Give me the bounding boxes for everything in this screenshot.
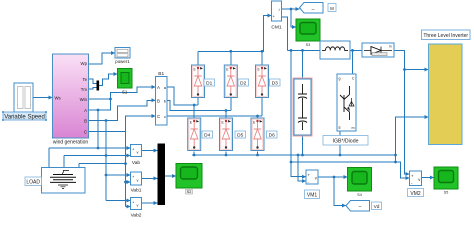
svg-text:v: v — [137, 203, 139, 208]
svg-text:Wp: Wp — [81, 61, 88, 66]
scope S2 — [176, 164, 202, 195]
wire mux output to scope S2 — [165, 175, 176, 177]
svg-text:B: B — [84, 119, 87, 124]
wire B1 b to rectifier row2 — [167, 100, 231, 110]
wire capacitor top — [302, 50, 304, 79]
wire D2 bottom — [230, 98, 232, 111]
wire phase A tap down — [97, 110, 99, 148]
label Three Level Inverter — [422, 30, 471, 40]
svg-text:IGB*/Diode: IGB*/Diode — [333, 139, 359, 145]
svg-text:S4: S4 — [357, 193, 361, 197]
voltage measurement Vab2 — [131, 198, 142, 219]
svg-text:C: C — [84, 130, 87, 135]
svg-text:Vab2: Vab2 — [131, 213, 142, 219]
label Vd — [372, 202, 382, 210]
svg-text:m: m — [352, 126, 355, 130]
wire phase A rail to Vab — [49, 147, 131, 149]
label D3 — [270, 79, 281, 87]
wire mux to scope S1 — [99, 74, 118, 86]
wire phase C rail — [79, 163, 126, 165]
svg-text:m: m — [389, 45, 392, 49]
goto tag minus Vd — [346, 201, 370, 212]
wire capacitor bottom — [302, 135, 304, 155]
wire phase B rail to Vab minus — [64, 155, 131, 157]
voltage measurement Vab1 — [131, 172, 142, 194]
wire D6 bottom — [257, 152, 259, 156]
wire bus to inductor — [287, 49, 320, 51]
wire D5 top — [225, 111, 227, 119]
svg-text:S2: S2 — [187, 190, 191, 194]
mux Te Tm — [97, 81, 100, 91]
three-phase measurement B1 — [156, 71, 168, 125]
svg-text:S1: S1 — [122, 90, 128, 95]
label LOAD — [25, 177, 42, 186]
svg-text:S3: S3 — [306, 43, 310, 47]
label D4 — [202, 131, 213, 139]
wire D3 bottom — [261, 98, 263, 117]
wire DC link sense rail to VM2 — [291, 162, 410, 178]
voltage measurement VM2 — [410, 171, 422, 186]
wire D6 top — [257, 116, 259, 118]
label D1 — [204, 79, 215, 87]
svg-text:VM2: VM2 — [410, 191, 421, 197]
arrowheads — [49, 7, 435, 209]
diode D4 — [188, 118, 201, 151]
svg-text:S5: S5 — [444, 191, 448, 195]
svg-text:B: B — [157, 98, 160, 103]
svg-text:Vd: Vd — [374, 204, 380, 210]
wire load riser B — [63, 156, 65, 168]
svg-text:C: C — [352, 77, 355, 81]
svg-text:v: v — [137, 150, 139, 155]
wire branch into inverter input 1 — [405, 69, 429, 71]
wire D1 bottom — [197, 98, 199, 106]
svg-text:v: v — [137, 178, 139, 183]
svg-text:A: A — [84, 108, 87, 113]
from tag M — [328, 4, 336, 12]
svg-text:A: A — [157, 85, 160, 90]
voltage measurement Vab — [131, 145, 142, 167]
wire phase C staircase to B1 — [89, 116, 156, 132]
svg-text:D2: D2 — [240, 81, 246, 87]
wire inductor to series diode — [350, 49, 362, 51]
svg-text:D3: D3 — [272, 81, 278, 87]
goto tag minus — [300, 3, 324, 14]
wire IGBT emitter to bus — [339, 131, 341, 155]
capacitor block C — [294, 79, 311, 135]
svg-text:c: c — [164, 114, 166, 119]
svg-text:power1: power1 — [115, 59, 130, 64]
svg-text:Three Level Inverter: Three Level Inverter — [423, 33, 468, 39]
wire phase A staircase to B1 — [89, 87, 156, 110]
svg-text:wind generation: wind generation — [53, 140, 89, 146]
wire Wp to power1 — [89, 53, 116, 64]
wire VM1 output to scope S4 — [318, 176, 348, 178]
svg-text:g: g — [339, 77, 341, 81]
svg-text:B1: B1 — [158, 71, 164, 77]
wire Vab output to mux — [142, 150, 158, 152]
current measurement CM1 — [271, 1, 281, 31]
wire Vab1 output to mux — [142, 177, 158, 179]
svg-text:D1: D1 — [206, 81, 212, 87]
wire VM2 output to scope S5 — [422, 177, 435, 179]
wire IGBT collector — [352, 50, 354, 74]
svg-text:Te: Te — [82, 77, 87, 82]
series diode block — [362, 43, 394, 57]
svg-text:Vab1: Vab1 — [131, 188, 142, 194]
svg-text:C: C — [157, 114, 160, 119]
scope S3 — [296, 19, 320, 47]
wire phase C tap down to Vab1 minus and Vab2 minus — [126, 132, 131, 207]
IGBT Diode block — [337, 74, 356, 131]
wire Te to mux — [89, 79, 97, 84]
wire top DC bus — [198, 16, 272, 52]
wire Ws source to generator — [33, 97, 53, 99]
svg-text:D6: D6 — [269, 133, 275, 139]
svg-text:D5: D5 — [237, 133, 243, 139]
label IGB Diode — [323, 136, 368, 146]
svg-text:–: – — [312, 6, 315, 12]
wire CM1 return to bus — [282, 17, 288, 50]
scope power1 — [115, 48, 130, 65]
wire B1 a to rectifier row1 — [167, 87, 198, 105]
wire B1 c to rectifier row3 — [167, 115, 262, 117]
wire VM1 plus feed from top bus — [291, 50, 306, 176]
diode D2 — [224, 65, 237, 98]
svg-text:VM1: VM1 — [307, 193, 318, 199]
label D6 — [267, 131, 278, 139]
svg-text:–: – — [359, 204, 362, 210]
voltage measurement VM1 — [306, 170, 318, 185]
subsystem wind generation — [53, 54, 89, 146]
wire D4 bottom — [193, 152, 195, 156]
wire CM1 signal to goto tag — [282, 8, 300, 10]
wire Vab2 output to mux — [142, 202, 158, 204]
svg-text:Tm: Tm — [81, 87, 88, 92]
scope S4 — [348, 168, 372, 198]
label VM1 — [305, 190, 320, 199]
wire D3 top — [261, 51, 263, 65]
svg-text:Ws: Ws — [55, 96, 61, 101]
wire Tm to mux — [89, 88, 97, 90]
wire Win — [89, 98, 111, 100]
wire branch to scope S3 — [291, 9, 296, 27]
source block Variable Speed — [14, 83, 33, 112]
label D2 — [238, 79, 249, 87]
label VM2 — [408, 189, 424, 197]
mux scope bar — [158, 144, 166, 206]
wire bottom DC bus — [192, 117, 429, 155]
three level inverter block — [429, 44, 463, 145]
wire VM1 minus from bottom bus — [298, 155, 306, 181]
wire D2 top — [230, 51, 232, 65]
svg-text:Vab: Vab — [132, 160, 141, 166]
scope S1 — [118, 69, 133, 95]
wire D5 bottom — [225, 152, 227, 156]
svg-text:Variable Speed: Variable Speed — [4, 114, 45, 120]
wire phase B staircase to B1 — [89, 100, 156, 120]
inductor block — [320, 41, 350, 59]
wire phase B tap down to Vab1 and Vab2 — [106, 121, 131, 201]
label D5 — [235, 131, 246, 139]
load block — [42, 168, 86, 194]
svg-text:CM1: CM1 — [271, 25, 281, 31]
svg-text:Win: Win — [80, 97, 88, 102]
wire branch to Vd goto — [334, 177, 346, 206]
diode D1 — [192, 65, 205, 98]
wire load riser A — [48, 148, 50, 168]
wire load riser C — [78, 164, 80, 168]
label Variable Speed — [2, 111, 47, 121]
svg-text:LOAD: LOAD — [26, 180, 40, 186]
svg-text:M: M — [330, 6, 334, 11]
wire diode to inverter DC plus — [394, 50, 410, 174]
svg-text:i: i — [279, 7, 280, 12]
diode D6 — [251, 118, 264, 151]
wire D4 top — [193, 105, 195, 118]
svg-text:D4: D4 — [204, 133, 210, 139]
scope S5 — [434, 167, 458, 195]
diode D3 — [256, 65, 269, 98]
diode D5 — [220, 118, 233, 151]
wire D1 top to bus — [197, 51, 199, 65]
